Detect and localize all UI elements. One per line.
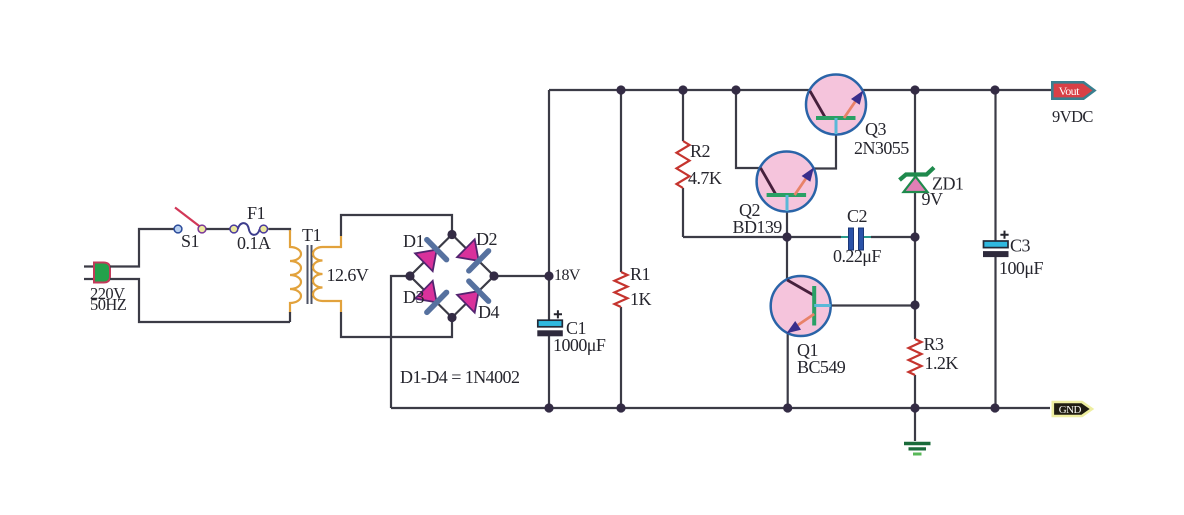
- fuse F1 right terminal: [260, 225, 268, 233]
- svg-text:S1: S1: [181, 231, 199, 251]
- node: bridge left: [405, 271, 414, 280]
- transistor Q1 emitter: [795, 314, 814, 327]
- wire: top rail 18V: [549, 89, 1052, 91]
- svg-text:1.2K: 1.2K: [925, 353, 959, 373]
- svg-text:R2: R2: [690, 141, 710, 161]
- wire: fuse to transformer: [268, 229, 290, 231]
- node: ground rail at Q1 emitter: [783, 403, 792, 412]
- fuse F1 element: [238, 223, 260, 235]
- node: ground rail at C1: [544, 403, 553, 412]
- node: top rail at Q2 collector: [731, 85, 740, 94]
- svg-text:9VDC: 9VDC: [1052, 107, 1093, 126]
- node: bridge bottom: [447, 313, 456, 322]
- svg-text:R1: R1: [630, 264, 650, 284]
- wire: secondary top lead to bridge: [341, 215, 452, 236]
- wire: 18V branch vertical: [548, 90, 550, 408]
- resistor R1 branch wire: [620, 90, 622, 408]
- transistor Q3 base bar: [816, 116, 856, 120]
- plug P1 220V: [94, 263, 110, 283]
- svg-text:D3: D3: [403, 287, 424, 307]
- transformer T1 secondary winding: [313, 236, 341, 312]
- node: top rail at R2: [678, 85, 687, 94]
- terminal GND flag: [1053, 402, 1092, 416]
- svg-text:T1: T1: [302, 225, 321, 245]
- transistor Q2 base lead: [786, 195, 789, 211]
- wire: Q1 emitter down to ground rail: [787, 325, 789, 408]
- resistor R2: [677, 141, 690, 188]
- svg-text:R3: R3: [924, 334, 944, 354]
- wire: plug to switch: [110, 229, 290, 322]
- node: Q2 base: [782, 232, 791, 241]
- svg-text:C2: C2: [847, 206, 867, 226]
- node: ground rail at C3: [990, 403, 999, 412]
- svg-text:2N3055: 2N3055: [854, 138, 909, 158]
- transistor Q3 base lead: [835, 118, 838, 134]
- wire: R2 to Q2 base / C2 / ZD1 node: [683, 236, 915, 238]
- svg-text:C3: C3: [1010, 236, 1030, 256]
- svg-text:Vout: Vout: [1059, 84, 1080, 98]
- wire: secondary bottom lead to bridge: [341, 312, 452, 337]
- transistor Q3 collector: [810, 91, 826, 118]
- capacitor C1 bottom plate: [538, 331, 563, 336]
- diode D2: [457, 239, 488, 270]
- capacitor C3 plus: [1000, 231, 1008, 239]
- node: ZD1 C2 junction: [910, 232, 919, 241]
- node: bridge top: [447, 230, 456, 239]
- switch S1 throw: [198, 225, 206, 233]
- node: ground rail at R1: [616, 403, 625, 412]
- svg-text:D1: D1: [403, 231, 424, 251]
- svg-text:4.7K: 4.7K: [688, 168, 722, 188]
- wire: bottom ground rail: [391, 407, 1050, 409]
- transistor Q2 collector: [761, 168, 777, 195]
- wire: teal segments at C2: [841, 236, 871, 238]
- resistor R1: [615, 272, 628, 307]
- wire: bridge right node to 18V node: [494, 275, 549, 277]
- fuse F1 left terminal: [230, 225, 238, 233]
- svg-text:50HZ: 50HZ: [90, 295, 127, 314]
- transistor Q1 emitter arrow: [788, 322, 801, 333]
- node: top rail at R1: [616, 85, 625, 94]
- node: output rail at C3: [990, 85, 999, 94]
- ground symbol: [904, 444, 931, 455]
- switch S1 pole: [174, 225, 182, 233]
- svg-text:D4: D4: [478, 302, 499, 322]
- capacitor C3 branch wire: [994, 90, 996, 408]
- svg-text:0.22μF: 0.22μF: [833, 246, 881, 266]
- wire: Q2 emitter to Q3 base: [806, 133, 836, 169]
- transistor Q1 base lead: [814, 304, 831, 307]
- resistor R3 branch wire: [914, 305, 916, 408]
- transformer T1 core: [308, 245, 312, 304]
- svg-text:1K: 1K: [630, 289, 651, 309]
- capacitor C1 top plate: [538, 320, 563, 327]
- capacitor C3 bottom plate: [984, 252, 1009, 257]
- diode D3: [415, 281, 446, 313]
- transistor Q2 base bar: [767, 193, 807, 197]
- diode D4: [457, 281, 488, 313]
- transistor Q2 body: [757, 152, 817, 212]
- svg-text:1000μF: 1000μF: [553, 335, 606, 355]
- svg-text:D1-D4 = 1N4002: D1-D4 = 1N4002: [400, 367, 519, 387]
- node: Q1 base R3 junction: [910, 300, 919, 309]
- transistor Q2 emitter: [795, 176, 808, 195]
- zener ZD1: [900, 168, 935, 193]
- wire: primary bottom lead: [289, 312, 291, 322]
- diode D1: [415, 240, 446, 272]
- wire: Q2 collector riser: [736, 90, 770, 168]
- resistor R3: [909, 339, 922, 375]
- switch S1 lever: [175, 208, 200, 227]
- resistor R2 branch wire: [682, 90, 684, 237]
- wire: bridge diamond edges: [410, 235, 494, 318]
- wire: Q1 base lead to R3 node: [825, 304, 915, 306]
- transistor Q2 emitter arrow: [803, 169, 814, 182]
- svg-text:D2: D2: [476, 229, 497, 249]
- wire: plug prongs: [84, 267, 94, 280]
- svg-text:F1: F1: [247, 203, 265, 223]
- capacitor C2 left plate: [849, 228, 854, 250]
- node: output rail at ZD1: [910, 85, 919, 94]
- transformer T1 primary winding: [290, 230, 301, 313]
- transistor Q1 body: [771, 276, 831, 336]
- node: 18V: [544, 271, 553, 280]
- transistor Q3 emitter: [844, 99, 857, 118]
- svg-text:18V: 18V: [554, 267, 581, 284]
- wire: bridge left node to ground rail: [391, 276, 410, 408]
- wire: switch to fuse: [206, 228, 230, 230]
- svg-text:GND: GND: [1059, 404, 1082, 416]
- terminal Vout flag: [1052, 82, 1094, 98]
- node: ground rail at R3: [910, 403, 919, 412]
- svg-text:Q3: Q3: [865, 119, 886, 139]
- node: bridge right: [489, 271, 498, 280]
- capacitor C2 right plate: [859, 228, 864, 250]
- svg-text:BC549: BC549: [797, 357, 846, 377]
- svg-text:0.1A: 0.1A: [237, 233, 271, 253]
- transistor Q3 body: [806, 75, 866, 135]
- wire: Q2 base node down to Q1 collector: [786, 237, 788, 290]
- transistor Q1 collector: [787, 280, 814, 296]
- transistor Q3 emitter arrow: [852, 92, 863, 105]
- transistor Q1 base bar: [812, 286, 816, 326]
- svg-text:12.6V: 12.6V: [327, 265, 369, 285]
- capacitor C1 plus: [554, 310, 562, 318]
- wire: ground stem: [914, 408, 916, 441]
- zener ZD1 branch wire: [914, 90, 916, 305]
- capacitor C3 top plate: [984, 241, 1009, 248]
- wire: Q2 base lead: [786, 200, 788, 237]
- svg-text:9V: 9V: [922, 189, 943, 209]
- svg-text:BD139: BD139: [733, 217, 783, 237]
- svg-text:100μF: 100μF: [999, 258, 1043, 278]
